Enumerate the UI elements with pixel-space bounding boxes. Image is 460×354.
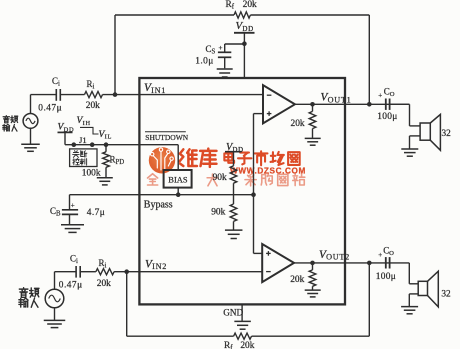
capacitor Ci (bottom) plates [75, 266, 77, 278]
svg-text:32: 32 [441, 289, 451, 299]
capacitor Co (top) plates [385, 99, 387, 110]
capacitor Co (bottom) plates [385, 257, 387, 268]
svg-text:IN1: IN1 [151, 86, 166, 95]
ground below speaker 1 [401, 148, 418, 150]
svg-text:Bypass: Bypass [144, 200, 173, 211]
ground below CS [217, 68, 233, 70]
resistor 90k lower [230, 204, 237, 221]
wire VOUT1 [295, 103, 410, 105]
resistor Ri (bottom) [96, 269, 114, 275]
label minus op2 [266, 271, 271, 273]
node RPD junction [104, 142, 109, 147]
node VDD/CS junction [242, 41, 247, 46]
label shutdown control text [73, 151, 80, 158]
svg-text:20k: 20k [86, 101, 100, 111]
box shutdown control [70, 149, 97, 167]
svg-text:20k: 20k [291, 119, 305, 129]
svg-text:1.0μ: 1.0μ [195, 56, 213, 66]
svg-text:4.7μ: 4.7μ [87, 208, 105, 218]
watermark text dzsc site [224, 152, 234, 163]
watermark text weiku [179, 149, 196, 166]
svg-text:+: + [378, 251, 382, 259]
ground GND pin [234, 320, 251, 322]
node J1 right [90, 142, 95, 147]
svg-text:OUT2: OUT2 [326, 253, 350, 262]
wire speaker2 return [409, 293, 418, 295]
wire BIAS to bypass line [177, 188, 179, 195]
wire Ci to Ri (top) [60, 94, 84, 96]
svg-text:DD: DD [233, 147, 244, 154]
capacitor Ci (top) plates [55, 89, 57, 101]
label plus op2 [266, 252, 271, 254]
svg-text:IL: IL [105, 134, 112, 141]
resistor Rf (top) [234, 12, 250, 18]
wire top feedback horizontal [115, 14, 234, 16]
svg-text:B: B [56, 211, 61, 218]
resistor RPD [105, 145, 107, 152]
node J1 left [72, 142, 77, 147]
svg-text:i: i [92, 84, 94, 91]
capacitor CB plates [62, 209, 78, 211]
source AC generator 1 [23, 114, 38, 129]
svg-text:20k: 20k [240, 341, 254, 349]
svg-text:+: + [71, 202, 75, 210]
svg-text:J1: J1 [79, 135, 87, 145]
node 20k junction op1 [310, 102, 315, 107]
ground below source 2 [54, 308, 56, 320]
node VIN2 feedback junction [124, 269, 129, 274]
IC power amplifier block outline [139, 78, 345, 304]
source AC generator 2 [45, 289, 64, 308]
wire speaker2 feed [408, 263, 410, 284]
op-amp U1b [262, 244, 294, 282]
svg-text:DD: DD [242, 25, 254, 33]
svg-text:+: + [219, 44, 223, 52]
box BIAS [164, 170, 192, 188]
svg-text:100μ: 100μ [377, 112, 397, 122]
svg-text:90k: 90k [213, 173, 227, 183]
wire feedback right vertical to VOUT1 node [368, 15, 370, 104]
ground below 20k op1 [312, 129, 314, 138]
wire VOUT2 [294, 262, 409, 264]
svg-text:0.47μ: 0.47μ [59, 280, 83, 290]
wire bias vertical to op-amp inputs [254, 113, 264, 115]
wire Ri to IC VIN1 [103, 94, 264, 96]
svg-text:OUT1: OUT1 [328, 95, 352, 104]
wire source2 to Ci [54, 272, 56, 290]
wire VDD to J1 [64, 132, 66, 144]
resistor Rf (bottom) [234, 333, 252, 339]
wire shutdown to BIAS [140, 144, 178, 146]
wire feedback left vertical to VIN1 node [114, 15, 116, 95]
ground below 20k op2 [312, 286, 314, 289]
node VIN1 feedback junction [113, 92, 118, 97]
ground below RPD [105, 167, 107, 177]
wire GND stub [241, 305, 243, 321]
resistor Ri (top) [85, 92, 103, 98]
wire bottom feedback [126, 272, 128, 337]
ground below divider [233, 221, 235, 229]
label audio input 1 [3, 116, 9, 123]
svg-text:O: O [390, 91, 395, 98]
svg-text:SHUTDOWN: SHUTDOWN [145, 133, 188, 142]
resistor 90k upper [230, 166, 237, 183]
svg-text:100μ: 100μ [376, 272, 396, 282]
resistor 20k op2 [312, 263, 314, 270]
ground below speaker 2 [401, 306, 418, 308]
speaker 1 [420, 123, 430, 140]
svg-text:20k: 20k [97, 279, 111, 289]
node VOUT1 feedback junction [367, 102, 372, 107]
wire bypass line [70, 194, 254, 196]
watermark slogan row [148, 174, 158, 185]
svg-text:PD: PD [115, 159, 124, 166]
svg-text:i: i [58, 81, 60, 88]
speaker 2 [418, 281, 427, 295]
svg-text:i: i [104, 263, 106, 270]
wire VDD stem to IC [243, 33, 245, 78]
wire cap to speaker 1 [391, 103, 410, 105]
svg-text:32: 32 [442, 129, 452, 139]
resistor 20k op1 [312, 104, 314, 111]
ground below CB [61, 224, 84, 226]
label minus op1 [267, 94, 272, 96]
watermark logo [149, 147, 175, 173]
svg-text:+: + [378, 92, 382, 100]
op-amp U1a [263, 85, 295, 123]
svg-text:20k: 20k [290, 275, 304, 285]
svg-text:BIAS: BIAS [168, 174, 188, 184]
svg-text:GND: GND [223, 307, 243, 317]
svg-text:IH: IH [83, 120, 91, 127]
wire speaker1 feed [409, 104, 411, 126]
ground below source 1 [30, 128, 32, 144]
wire to CS cap [225, 43, 245, 45]
node VOUT2 feedback junction [367, 261, 372, 266]
wire Ri to IC VIN2 [114, 271, 262, 273]
svg-text:20k: 20k [243, 0, 257, 10]
svg-text:0.47μ: 0.47μ [38, 103, 62, 113]
node 20k junction op2 [310, 261, 315, 266]
wire VDD to 90k [233, 152, 235, 166]
wire divider middle [233, 183, 235, 204]
svg-text:90k: 90k [211, 207, 225, 217]
label audio input 2 [19, 288, 28, 298]
svg-text:S: S [211, 49, 215, 56]
capacitor CS plates [218, 51, 231, 53]
wire Ci to Ri (bottom) [80, 271, 96, 273]
wire source1 to Ci [30, 95, 32, 114]
wire speaker1 return [410, 135, 421, 137]
waveform step VIH to VIL [80, 127, 99, 134]
node BIAS bypass junction [176, 192, 181, 197]
label plus op1 [267, 113, 272, 115]
svg-text:IN2: IN2 [152, 262, 167, 271]
svg-text:O: O [389, 250, 394, 257]
node bypass bias-divider junction [251, 192, 256, 197]
wire bypass to CB [69, 195, 71, 210]
svg-text:i: i [76, 258, 78, 265]
